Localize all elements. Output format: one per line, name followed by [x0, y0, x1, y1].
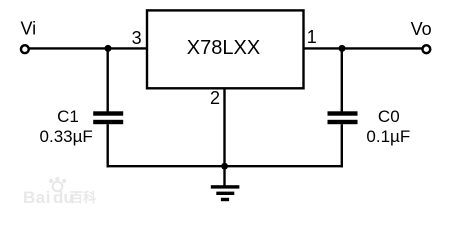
terminal Vo: [422, 45, 430, 53]
svg-text:C1: C1: [57, 107, 79, 126]
svg-text:0.1µF: 0.1µF: [366, 127, 410, 146]
svg-text:1: 1: [307, 27, 317, 47]
svg-text:百科: 百科: [70, 190, 96, 205]
capacitor C0 plates: [328, 111, 358, 115]
capacitor C1 bottom lead: [106, 124, 108, 167]
capacitor C1 top lead: [106, 47, 108, 111]
bottom ground wire: [107, 165, 344, 167]
svg-text:X78LXX: X78LXX: [187, 37, 260, 59]
svg-text:Bai: Bai: [23, 188, 51, 207]
capacitor C0 bottom lead: [341, 124, 343, 167]
pin 2 wire: [223, 88, 225, 167]
node output junction: [339, 45, 346, 52]
svg-text:Vo: Vo: [411, 19, 432, 39]
svg-text:2: 2: [210, 88, 220, 108]
capacitor C0 top lead: [341, 47, 343, 111]
svg-text:C0: C0: [378, 107, 400, 126]
watermark: [23, 177, 96, 207]
svg-text:Vi: Vi: [20, 18, 36, 38]
node ground junction: [221, 163, 228, 170]
ground symbol: [211, 185, 240, 201]
node input junction: [105, 45, 112, 52]
regulator U1 X78LXX box: [147, 10, 304, 88]
svg-text:3: 3: [132, 28, 142, 48]
svg-text:0.33µF: 0.33µF: [40, 127, 93, 146]
ground lead: [223, 166, 225, 187]
terminal Vi: [21, 45, 29, 53]
capacitor C1 plates: [93, 111, 123, 115]
wire Vi to pin 3: [29, 47, 146, 49]
wire pin 1 to Vo: [305, 47, 423, 49]
